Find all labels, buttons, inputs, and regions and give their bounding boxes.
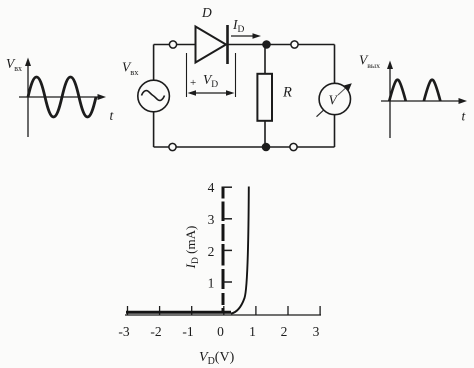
svg-text:Vвх: Vвх bbox=[6, 56, 22, 73]
svg-text:4: 4 bbox=[208, 180, 215, 195]
svg-text:t: t bbox=[110, 108, 115, 123]
svg-text:3: 3 bbox=[313, 324, 320, 339]
svg-text:Vвых: Vвых bbox=[359, 53, 380, 71]
svg-text:ID: ID bbox=[232, 17, 245, 35]
svg-text:-1: -1 bbox=[182, 324, 193, 339]
svg-text:ID (mA): ID (mA) bbox=[183, 226, 201, 270]
svg-text:VD: VD bbox=[203, 72, 218, 90]
svg-text:VD(V): VD(V) bbox=[199, 350, 235, 367]
svg-text:0: 0 bbox=[217, 324, 224, 339]
svg-text:1: 1 bbox=[249, 324, 256, 339]
svg-text:+: + bbox=[190, 77, 196, 89]
svg-text:D: D bbox=[201, 5, 212, 20]
svg-text:t: t bbox=[462, 109, 467, 124]
svg-text:2: 2 bbox=[208, 244, 215, 259]
svg-text:2: 2 bbox=[281, 324, 288, 339]
svg-text:-2: -2 bbox=[150, 324, 161, 339]
svg-text:R: R bbox=[282, 85, 292, 101]
svg-text:3: 3 bbox=[208, 212, 215, 227]
svg-text:1: 1 bbox=[208, 276, 215, 291]
svg-text:Vвх: Vвх bbox=[122, 60, 139, 77]
svg-text:-3: -3 bbox=[118, 324, 129, 339]
